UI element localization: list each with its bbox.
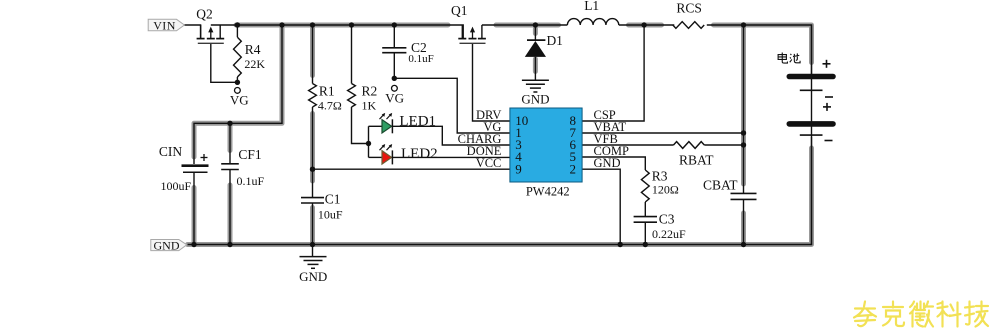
node: rail junction at R4 — [235, 22, 240, 27]
svg-text:VG: VG — [230, 92, 249, 107]
battery minus sign 1 — [825, 96, 833, 98]
svg-text:RCS: RCS — [676, 1, 702, 16]
battery plus sign 1 — [823, 63, 831, 65]
node: GND rail junction C1 — [310, 242, 315, 247]
wire: L1 to RCS gray highlight — [629, 23, 662, 28]
resistor R3 — [641, 170, 649, 202]
wire: D1 leads — [534, 25, 536, 40]
wire: R4 leads — [236, 25, 238, 37]
svg-text:C3: C3 — [659, 212, 675, 227]
wire: CIN branch gray highlight — [194, 25, 282, 157]
wire: R2 leads — [351, 25, 353, 84]
svg-text:C1: C1 — [325, 192, 341, 207]
wire: VBAT vertical to CBAT — [743, 25, 745, 193]
port VIN tag — [148, 19, 184, 31]
node: VBAT pin junction — [741, 130, 746, 135]
svg-text:0.1uF: 0.1uF — [237, 174, 265, 188]
battery cell 1 negative plate — [800, 89, 823, 91]
pin: VG port circle Q2 — [235, 88, 241, 94]
wire: Q1 source to battery plus — [482, 24, 568, 26]
svg-text:GND: GND — [154, 238, 180, 252]
svg-text:Q1: Q1 — [451, 3, 468, 18]
svg-text:CBAT: CBAT — [703, 178, 738, 193]
svg-text:VG: VG — [385, 91, 404, 106]
node: VG node Q2/R4 — [235, 80, 240, 85]
node: GND rail junction CIN — [191, 242, 196, 247]
wire: RCS to battery plus rail gray highlight — [714, 25, 812, 63]
watermark 夸克微科技 — [854, 302, 988, 327]
wire: Q2 gate to VG node — [211, 43, 238, 82]
wire: LED2 anode — [369, 156, 383, 158]
wire: LED1 cathode to CHARG pin — [393, 126, 510, 145]
svg-text:9: 9 — [515, 161, 522, 176]
svg-text:R2: R2 — [362, 83, 378, 98]
svg-text:GND: GND — [521, 92, 549, 107]
capacitor CBAT — [731, 192, 757, 194]
capacitor C1 — [301, 197, 324, 199]
svg-text:D1: D1 — [546, 33, 563, 48]
wire: VBAT pin wire — [582, 132, 744, 134]
resistor R4 — [234, 37, 242, 77]
node: rail junction at C2 — [392, 22, 397, 27]
node: rail junction at R2 — [349, 22, 354, 27]
wire: VIN tag to Q2 drain — [184, 25, 201, 39]
resistor R1 — [309, 84, 317, 108]
svg-text:R3: R3 — [652, 168, 668, 183]
node: rail junction at CIN branch — [279, 22, 284, 27]
svg-text:RBAT: RBAT — [679, 153, 714, 168]
node: LED anode junction — [366, 141, 371, 146]
wire: IC GND pin to rail — [582, 169, 620, 244]
wire: COMP pin to R3 — [582, 157, 645, 170]
wire: LED1 anode — [369, 125, 383, 127]
svg-text:VIN: VIN — [153, 18, 176, 32]
wire: top rail Q2 source to Q1 — [211, 25, 463, 39]
port GND tag — [151, 240, 187, 251]
battery cell 2 negative plate — [800, 134, 823, 136]
transistor Q2 — [197, 25, 225, 43]
resistor R2 — [348, 84, 356, 108]
resistor RBAT — [674, 142, 705, 149]
svg-text:L1: L1 — [584, 0, 599, 13]
svg-text:GND: GND — [299, 269, 327, 284]
node: VG node C2 — [392, 76, 397, 81]
capacitor C2 — [382, 47, 406, 49]
wire: battery minus and GND rail gray highlight — [188, 148, 812, 245]
capacitor CF1 — [221, 163, 239, 165]
node: rail junction at R1 — [310, 22, 315, 27]
svg-text:LED1: LED1 — [399, 113, 436, 129]
svg-text:Q2: Q2 — [196, 6, 213, 21]
node: GND rail junction CF1 — [227, 242, 232, 247]
wire: D1 cathode-to-ground gray highlight — [533, 59, 538, 72]
svg-text:2: 2 — [570, 161, 577, 176]
wire: D1 anode lead gray highlight — [533, 29, 538, 34]
wire: VFB pin to RBAT — [582, 144, 674, 146]
battery label 电池 — [778, 53, 800, 64]
battery minus sign 2 — [825, 140, 833, 142]
ground symbol D1 — [522, 79, 549, 81]
wire: CSP pin to current sense node — [582, 25, 644, 121]
battery cell 1 positive plate — [789, 74, 833, 80]
svg-text:100uF: 100uF — [161, 179, 192, 193]
wire: LED junction vertical — [368, 126, 370, 157]
diode D1 — [527, 39, 545, 41]
svg-text:VCC: VCC — [476, 156, 502, 170]
wire: battery internal connections — [811, 79, 813, 91]
node: CF1 branch junction — [227, 121, 232, 126]
wire: LED2 cathode to DONE pin — [393, 156, 510, 158]
IC U1 PW4242 — [510, 108, 582, 182]
wire: VBAT net gray highlight — [741, 25, 746, 184]
svg-text:22K: 22K — [244, 57, 265, 71]
transistor Q1 — [458, 25, 486, 43]
wire: R3 to C3 lead — [644, 202, 646, 217]
wire: R1 leads — [312, 25, 314, 84]
wire: C1 bottom lead and ground stub — [312, 203, 314, 257]
wire: C2 VG node to IC VG pin — [394, 78, 510, 133]
ground symbol below C1 — [300, 256, 327, 258]
node: VCC junction at R1/C1 — [310, 167, 315, 172]
wire: GND rail — [188, 137, 812, 245]
svg-text:PW4242: PW4242 — [526, 185, 570, 199]
node: battery plus junction — [741, 22, 746, 27]
svg-text:R4: R4 — [245, 42, 261, 57]
wire: CF1 branch gray highlight — [228, 126, 233, 151]
svg-text:4.7Ω: 4.7Ω — [318, 99, 342, 113]
node: GND rail junction C3 — [643, 242, 648, 247]
pin: VG port circle C2 — [392, 85, 398, 91]
svg-text:CIN: CIN — [159, 144, 183, 159]
svg-text:120Ω: 120Ω — [652, 183, 679, 197]
node: VFB pin junction — [741, 142, 746, 147]
svg-text:1K: 1K — [362, 99, 377, 113]
node: CSP sense junction — [641, 22, 646, 27]
capacitor C3 — [634, 216, 657, 218]
wire: VIN input rail gray highlight — [236, 23, 448, 28]
svg-text:CF1: CF1 — [238, 147, 261, 162]
wire: CIN branch from rail — [194, 25, 282, 164]
svg-text:0.1uF: 0.1uF — [408, 53, 433, 65]
svg-text:LED2: LED2 — [401, 146, 438, 162]
wire: switch node gray highlight Q1 to L1 — [496, 23, 559, 28]
node: GND rail junction IC GND — [618, 242, 623, 247]
svg-text:10uF: 10uF — [318, 208, 343, 222]
node: switch node junction at D1 — [533, 22, 538, 27]
inductor L1 — [567, 19, 618, 25]
wire: Q1 gate to DRV pin — [473, 43, 511, 121]
capacitor CIN — [182, 164, 209, 167]
LED LED1 green — [380, 113, 393, 133]
wire: R1 branch gray highlight — [310, 25, 315, 76]
svg-text:R1: R1 — [319, 83, 335, 98]
resistor RCS — [673, 22, 704, 29]
svg-text:GND: GND — [594, 156, 621, 170]
battery plus sign 2 — [823, 106, 831, 108]
node: GND rail junction CBAT — [741, 242, 746, 247]
svg-text:0.22uF: 0.22uF — [652, 227, 686, 241]
wire: VCC net R1/C1 junction to VCC pin — [313, 168, 511, 170]
wire: CF1 leads — [229, 123, 231, 164]
LED LED2 red — [380, 144, 393, 164]
battery cell 2 positive plate — [789, 121, 833, 127]
wire: C3 to GND rail — [644, 222, 646, 244]
wire: C2 leads — [393, 25, 395, 48]
